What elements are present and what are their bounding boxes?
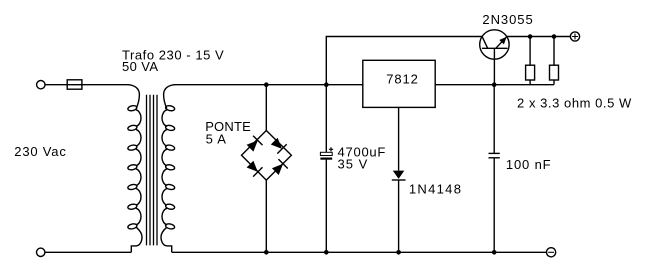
- node 100nF/bottom-rail junction: [492, 250, 497, 255]
- input terminal J2 (230Vac return): [37, 248, 45, 256]
- wire 100nF bottom lead: [493, 158, 495, 253]
- node filter-cap junction top: [324, 82, 329, 87]
- wire base/100nF lead: [493, 85, 495, 154]
- node R1 top junction: [528, 34, 533, 39]
- wire R2 bottom lead: [553, 80, 555, 85]
- regulator U1 7812 box: [363, 60, 435, 107]
- svg-text:2N3055: 2N3055: [482, 12, 533, 27]
- svg-text:100 nF: 100 nF: [506, 157, 552, 172]
- resistor R1 3.3 ohm: [526, 65, 535, 80]
- transformer T1 primary winding: [127, 85, 142, 253]
- wire 1N4148 cathode lead: [398, 180, 400, 252]
- node 1N4148/bottom-rail junction: [396, 250, 401, 255]
- node R2 top junction: [552, 34, 557, 39]
- bridge rectifier PONTE diamond: [242, 131, 292, 181]
- output terminal minus: [547, 248, 556, 257]
- bridge diode bottom-left: [247, 161, 263, 177]
- wire R1 bottom lead: [529, 80, 531, 85]
- wire emitter rail to + terminal: [507, 36, 571, 38]
- wire 4700uF top lead: [325, 85, 327, 153]
- node 4700uF/bottom-rail junction: [324, 250, 329, 255]
- svg-text:2 x 3.3 ohm 0.5 W: 2 x 3.3 ohm 0.5 W: [517, 96, 632, 111]
- wire secondary top rail y=85: [176, 84, 363, 86]
- output terminal plus: [570, 32, 579, 41]
- svg-text:230 Vac: 230 Vac: [14, 144, 66, 159]
- resistor R2 3.3 ohm: [550, 65, 559, 80]
- wire riser to collector rail: [326, 37, 482, 85]
- transformer T1 core: [147, 95, 158, 246]
- bridge diode top-left: [247, 136, 263, 152]
- wire fuse to transformer primary: [82, 84, 127, 86]
- node secondary/bridge junction: [264, 82, 269, 87]
- wire R2 top lead: [553, 37, 555, 66]
- node bridge/bottom-rail junction: [264, 250, 269, 255]
- capacitor C2 100nF: [489, 153, 500, 157]
- bridge diode bottom-right: [272, 159, 288, 175]
- transistor Q1 2N3055: [480, 30, 509, 85]
- wire 7812 output rail: [435, 84, 554, 86]
- wire primary bottom to J2: [45, 251, 131, 253]
- wire bridge top lead: [265, 85, 267, 131]
- capacitor C1 4700uF 35V: [320, 147, 333, 158]
- wire J1 to fuse: [45, 84, 67, 86]
- wire 4700uF bottom lead: [325, 160, 327, 253]
- wire 7812 ground pin: [398, 107, 400, 170]
- node base/output junction: [492, 82, 497, 87]
- transformer T1 secondary winding: [161, 85, 176, 253]
- wire secondary bottom rail: [172, 251, 547, 253]
- svg-text:50 VA: 50 VA: [122, 59, 158, 74]
- svg-text:7812: 7812: [386, 72, 419, 87]
- wire bridge bottom lead: [265, 180, 267, 252]
- diode D1 1N4148: [392, 171, 406, 180]
- fuse F1: [67, 80, 82, 89]
- svg-text:5 A: 5 A: [206, 132, 227, 147]
- svg-text:1N4148: 1N4148: [409, 181, 462, 196]
- input terminal J1 (230Vac live): [37, 81, 45, 89]
- wire R1 top lead: [529, 37, 531, 66]
- bridge diode top-right: [271, 138, 287, 154]
- svg-text:35 V: 35 V: [338, 157, 369, 172]
